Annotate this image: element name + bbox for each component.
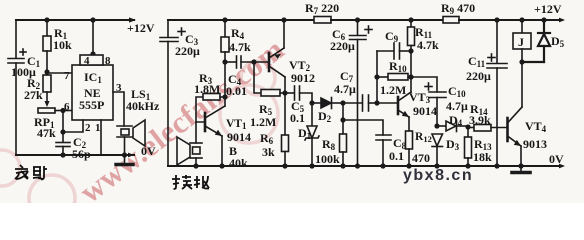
watermark red rings bbox=[0, 61, 278, 221]
resistor R9 bbox=[443, 17, 459, 24]
potentiometer RP1 bbox=[38, 108, 63, 113]
node junction 4-8 bbox=[90, 51, 95, 56]
transducer B microphone bbox=[177, 137, 202, 165]
node junction relay D5 collector bbox=[519, 59, 524, 64]
svg-text:1.2M: 1.2M bbox=[250, 115, 276, 129]
resistor R1 bbox=[43, 20, 51, 74]
op-amp U1 IC1 NE555P box bbox=[72, 65, 113, 120]
wire TX left edge lower bbox=[15, 63, 17, 155]
diode D1 zener bbox=[305, 103, 319, 166]
capacitor C5 bbox=[285, 86, 312, 103]
svg-text:40kHz: 40kHz bbox=[126, 99, 160, 113]
resistor R10 bbox=[377, 74, 411, 81]
diode D3 bbox=[432, 134, 443, 166]
svg-text:+12V: +12V bbox=[534, 2, 562, 16]
wire pin2 bbox=[63, 120, 83, 132]
node junction R11 rail bbox=[408, 17, 413, 22]
svg-text:470: 470 bbox=[412, 151, 430, 165]
svg-text:10k: 10k bbox=[53, 38, 72, 52]
svg-text:+12V: +12V bbox=[127, 21, 155, 35]
svg-text:0.01: 0.01 bbox=[226, 84, 247, 98]
diode D4 bbox=[437, 121, 468, 132]
capacitor C2 bbox=[56, 143, 70, 156]
node junction R6 rail bbox=[282, 163, 287, 168]
transistor Q2 VT2 9012 bbox=[269, 48, 285, 77]
wire VT1 emitter down bbox=[221, 136, 223, 166]
wire VT2 collector down bbox=[284, 77, 286, 93]
svg-text:1: 1 bbox=[95, 122, 101, 134]
node junction C6 rail bottom bbox=[355, 163, 360, 168]
transducer LS1 bbox=[117, 120, 145, 155]
capacitor C10 bbox=[425, 83, 446, 126]
node junction C9 right bbox=[408, 48, 413, 53]
wire mic bottom bbox=[195, 158, 197, 166]
svg-text:220μ: 220μ bbox=[466, 69, 491, 83]
svg-text:56p: 56p bbox=[72, 147, 91, 161]
node junction LS1 bottom rail bbox=[122, 152, 127, 157]
node junction R8 C8 tap bbox=[340, 117, 345, 122]
wire R10 C9 left column bbox=[376, 51, 378, 103]
transistor Q3 VT3 9014 bbox=[377, 92, 411, 117]
resistor R14 bbox=[468, 125, 507, 132]
node junction R12 rail bbox=[406, 163, 411, 168]
wire pin3 bbox=[113, 92, 124, 126]
svg-text:1.8M: 1.8M bbox=[194, 82, 220, 96]
svg-text:18k: 18k bbox=[473, 150, 492, 164]
RX labels bbox=[175, 1, 565, 170]
wire top rail RX mid bbox=[331, 19, 443, 21]
node junction D3 rail bbox=[434, 163, 439, 168]
node pin4/8 box bbox=[80, 55, 103, 65]
node TX rail arrowhead +12V bbox=[129, 17, 136, 22]
node junction RP1 pin6 bbox=[60, 108, 65, 113]
svg-text:9014: 9014 bbox=[227, 130, 251, 144]
svg-text:4.7μ: 4.7μ bbox=[334, 82, 356, 96]
node junction rail pin48 bbox=[90, 17, 95, 22]
node junction R3 collector bbox=[222, 94, 227, 99]
relay J bbox=[513, 20, 531, 62]
node RX 0V arrowhead bbox=[559, 164, 565, 169]
resistor R11 bbox=[408, 20, 415, 92]
resistor R12 bbox=[406, 117, 413, 166]
wire TX bottom rail bbox=[16, 154, 134, 156]
capacitor C8 bbox=[376, 135, 391, 166]
node junction C2 bottom rail bbox=[60, 152, 65, 157]
ground RX bbox=[512, 166, 530, 173]
node junction VT4 emitter rail bbox=[518, 163, 523, 168]
wire pin4-8 supply bbox=[92, 20, 94, 55]
node junction C5 D1 D2 bbox=[309, 100, 314, 105]
capacitor C1 bbox=[8, 49, 26, 63]
svg-text:7: 7 bbox=[64, 70, 70, 82]
node junction R1 top rail bbox=[44, 17, 49, 22]
wire RX left edge bbox=[167, 42, 169, 167]
svg-text:0.1: 0.1 bbox=[389, 149, 404, 163]
wire C10 branch bbox=[411, 77, 437, 92]
svg-text:9012: 9012 bbox=[291, 71, 315, 85]
svg-text:4.7k: 4.7k bbox=[229, 40, 251, 54]
svg-text:0.1: 0.1 bbox=[290, 111, 305, 125]
node junction C6 rail top bbox=[355, 17, 360, 22]
node junction mic rail bbox=[193, 163, 198, 168]
svg-text:3.9k: 3.9k bbox=[469, 113, 491, 127]
capacitor C9 bbox=[377, 43, 411, 59]
svg-text:47k: 47k bbox=[37, 126, 56, 140]
node junction R4 C4 collector bbox=[222, 59, 227, 64]
wire relay D5 bottom bbox=[522, 61, 544, 63]
wire RX left edge top bbox=[167, 20, 169, 37]
node junction R10 left bbox=[374, 74, 379, 79]
wire RX bottom rail bbox=[168, 165, 562, 167]
svg-text:220μ: 220μ bbox=[175, 44, 200, 58]
svg-text:555P: 555P bbox=[79, 98, 104, 112]
node junction D1 rail bbox=[309, 163, 314, 168]
wire top rail RX right bbox=[459, 19, 562, 21]
capacitor C11 bbox=[487, 20, 507, 166]
node junction relay rail bbox=[519, 17, 524, 22]
node junction R8 rail bbox=[340, 163, 345, 168]
svg-text:3k: 3k bbox=[262, 145, 275, 159]
svg-text:3: 3 bbox=[116, 82, 122, 94]
resistor R3 bbox=[196, 94, 225, 123]
svg-text:4: 4 bbox=[84, 55, 90, 67]
node RX rail arrowhead bbox=[559, 18, 565, 23]
svg-text:100k: 100k bbox=[315, 152, 340, 166]
capacitor C3 bbox=[160, 28, 185, 42]
svg-text:220μ: 220μ bbox=[330, 39, 355, 53]
node junction VT2 emitter rail bbox=[281, 17, 286, 22]
svg-text:6: 6 bbox=[64, 101, 70, 113]
resistor R8 bbox=[340, 103, 347, 166]
svg-text:ybx8.cn: ybx8.cn bbox=[403, 167, 473, 184]
resistor R4 bbox=[221, 20, 229, 62]
capacitor C4 bbox=[225, 56, 269, 68]
node junction R4 rail bbox=[222, 17, 227, 22]
node junction C10 D3 D4 bbox=[434, 123, 439, 128]
wire pin6 bbox=[63, 110, 72, 112]
resistor R2 bbox=[43, 75, 51, 103]
wire RP1 node down to C2 bbox=[62, 111, 64, 143]
node junction R13 rail bbox=[465, 163, 470, 168]
svg-text:8: 8 bbox=[105, 55, 111, 67]
resistor R13 bbox=[465, 127, 472, 166]
node junction D4 R13 R14 bbox=[465, 124, 470, 129]
node junction VT2 base R5 bbox=[251, 59, 256, 64]
svg-text:J: J bbox=[518, 35, 524, 49]
wire VT4 emitter down bbox=[520, 146, 522, 166]
node junction R5 C5 R6 bbox=[282, 90, 287, 95]
svg-text:2: 2 bbox=[85, 122, 91, 134]
node junction R10 right C10 bbox=[408, 74, 413, 79]
svg-text:1.2M: 1.2M bbox=[380, 83, 406, 97]
transistor Q1 VT1 9014 bbox=[205, 106, 225, 136]
svg-text:R7 220: R7 220 bbox=[305, 1, 339, 16]
wire pin1 bbox=[100, 120, 102, 155]
svg-text:9013: 9013 bbox=[523, 137, 547, 151]
wire TX left edge upper bbox=[15, 20, 17, 58]
svg-text:40k: 40k bbox=[229, 156, 248, 170]
resistor R6 bbox=[282, 93, 289, 166]
wire mic top to VT1 base bbox=[196, 122, 204, 143]
svg-text:0V: 0V bbox=[141, 144, 156, 158]
svg-text:4.7μ: 4.7μ bbox=[446, 99, 468, 113]
node junction C11 rail top bbox=[494, 17, 499, 22]
node RP1 wiper arrow bbox=[44, 101, 49, 107]
svg-text:0V: 0V bbox=[549, 152, 564, 166]
node junction D2 R8 C7 bbox=[340, 100, 345, 105]
node junction C8 rail bbox=[380, 163, 385, 168]
node junction VT1 emitter rail bbox=[219, 163, 224, 168]
capacitor C7 bbox=[343, 95, 377, 111]
label jie-shou (receive) bbox=[172, 175, 209, 189]
diode D2 bbox=[312, 98, 343, 109]
wire top rail TX bbox=[16, 19, 134, 21]
wire pin7 bbox=[47, 72, 72, 74]
svg-text:R9 470: R9 470 bbox=[441, 1, 475, 16]
wire VT1 collector up bbox=[224, 62, 226, 106]
watermark red diagonal text bbox=[73, 31, 291, 209]
svg-text:9014: 9014 bbox=[413, 104, 437, 118]
svg-text:27k: 27k bbox=[24, 88, 43, 102]
node junction R1-R2 pin7 bbox=[44, 69, 49, 74]
resistor R7 bbox=[314, 17, 331, 24]
capacitor C6 bbox=[350, 20, 373, 166]
transistor Q4 VT4 9013 bbox=[508, 107, 523, 146]
ground TX bbox=[116, 155, 133, 165]
wire C8 branch bbox=[343, 120, 383, 135]
wire VT4 collector up bbox=[521, 62, 523, 107]
diode D5 bbox=[538, 20, 550, 62]
node TX 0V arrowhead bbox=[128, 153, 134, 158]
wire VT2 emitter to rail bbox=[283, 20, 285, 48]
label fa-she (transmit) bbox=[15, 165, 47, 180]
TX labels bbox=[11, 21, 160, 161]
wire top rail RX left bbox=[168, 19, 314, 21]
svg-text:4.7k: 4.7k bbox=[417, 38, 439, 52]
node junction D5 rail bbox=[541, 17, 546, 22]
resistor R5 bbox=[254, 62, 285, 96]
node junction C11 rail bottom bbox=[494, 163, 499, 168]
label pin numbers bbox=[64, 55, 122, 134]
node junction C7 R10 base bbox=[374, 100, 379, 105]
node junction pin2 bbox=[60, 129, 65, 134]
